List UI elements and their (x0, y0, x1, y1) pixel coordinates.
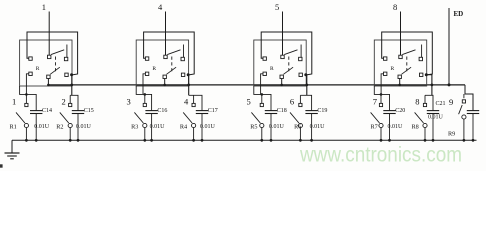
svg-text:2: 2 (62, 96, 66, 106)
wire hat over block S1 (27, 32, 78, 75)
svg-text:R7: R7 (371, 123, 378, 130)
net ED line (448, 8, 450, 85)
svg-text:1: 1 (42, 2, 46, 12)
terminal bottom-middle S4 (398, 75, 401, 78)
svg-text:R2: R2 (56, 123, 63, 130)
key switch 9 (462, 100, 465, 103)
svg-text:C18: C18 (277, 108, 287, 114)
svg-text:www.cntronics.com: www.cntronics.com (299, 144, 462, 167)
svg-text:C14: C14 (42, 108, 52, 114)
wire capacitor C17 to ground bus (201, 114, 203, 141)
junction dot bottom-right S3 (304, 73, 307, 76)
wire W3 drop block 2 (187, 75, 190, 96)
switch block S1 box (20, 40, 72, 86)
switch blade upper S1 (51, 50, 64, 55)
gang dashed link S1 (55, 57, 57, 72)
svg-text:7: 7 (373, 96, 377, 106)
wire W1 to unit 9 (465, 85, 473, 111)
terminal bottom-right S2 (181, 73, 184, 76)
switch blade lower S2 (167, 67, 177, 74)
terminal top-middle S1 (48, 55, 51, 58)
svg-text:6: 6 (290, 96, 294, 106)
junction dot bottom-right S2 (187, 73, 190, 76)
key switch 7 (379, 103, 382, 106)
capacitor C21 (427, 110, 439, 112)
wire switch 8 to ground bus (424, 128, 426, 141)
svg-text:5: 5 (275, 2, 279, 12)
switch blade upper S2 (167, 50, 180, 55)
key switch 5 (260, 103, 263, 106)
wire capacitor C15 to ground bus (77, 114, 79, 141)
terminal top-left S1 (29, 57, 32, 60)
terminal top-right S3 (299, 57, 302, 60)
terminal bottom-right S4 (420, 73, 423, 76)
wire bottom-left to unit (381, 74, 383, 95)
wire stub switch 1 (25, 94, 27, 103)
svg-text:R1: R1 (10, 123, 17, 130)
wire capacitor C18 to ground bus (270, 114, 272, 141)
key switch 8 (423, 103, 426, 106)
wire capacitor C19 to ground bus (311, 114, 313, 141)
terminal bottom-left S1 (29, 72, 32, 75)
svg-text:R9: R9 (448, 131, 455, 138)
node 4 input line (165, 12, 167, 56)
capacitor C22 unit 9 (467, 110, 479, 112)
wire stub top-right S4 (421, 45, 423, 58)
svg-text:C19: C19 (317, 108, 327, 114)
terminal top-middle S4 (399, 55, 402, 58)
switch blade upper S3 (284, 50, 297, 55)
switch block S2 box (136, 40, 188, 86)
wire stub top-right S3 (300, 45, 302, 58)
capacitor C18 (265, 110, 277, 112)
wire capacitor C21 to ground bus (432, 114, 434, 141)
wire capacitor C16 to ground bus (151, 114, 153, 141)
switch blade lower S4 (402, 67, 412, 74)
capacitor C14 (30, 110, 42, 112)
svg-text:8: 8 (415, 96, 419, 106)
svg-text:9: 9 (449, 97, 453, 107)
capacitor C15 (72, 110, 84, 112)
wire stub switch 8 (424, 95, 426, 103)
wire stub switch 5 (261, 94, 263, 103)
terminal bottom-middle S2 (163, 75, 166, 78)
svg-text:R3: R3 (131, 123, 138, 130)
gang dashed link S2 (171, 57, 173, 72)
key switch 6 (299, 103, 302, 106)
wire stub switch 2 (69, 95, 71, 103)
svg-text:0.01U: 0.01U (428, 115, 444, 121)
terminal bottom-left S2 (145, 72, 148, 75)
svg-text:5: 5 (247, 96, 251, 106)
terminal top-right S4 (419, 57, 422, 60)
terminal top-left S4 (384, 57, 387, 60)
wire right feed block 3 (300, 95, 311, 110)
wire stub top-right S2 (183, 45, 185, 58)
wire W3 drop block 4 (426, 75, 432, 96)
svg-text:1: 1 (12, 96, 16, 106)
key switch 1 (25, 103, 28, 106)
wire bottom-middle to net W1 (164, 79, 166, 85)
junction dot bottom-right S1 (70, 73, 73, 76)
wire right feed block 2 (189, 95, 202, 110)
terminal top-right S1 (64, 57, 67, 60)
wire left feed block 3 (254, 86, 271, 111)
svg-text:C17: C17 (208, 108, 218, 114)
wire switch 4 to ground bus (193, 128, 195, 141)
wire stub switch 3 (144, 94, 146, 103)
ground bus (12, 139, 477, 141)
svg-text:8: 8 (393, 2, 397, 12)
key switch 2 (69, 103, 72, 106)
wire switch 6 to ground bus (299, 128, 301, 141)
ground (11, 140, 13, 153)
gang dashed link S3 (288, 57, 290, 72)
svg-text:R4: R4 (180, 123, 187, 130)
capacitor C19 (305, 110, 317, 112)
wire stub switch 7 (380, 94, 382, 103)
terminal top-left S2 (145, 57, 148, 60)
svg-text:C15: C15 (84, 108, 94, 114)
wire switch 2 to ground bus (69, 128, 71, 141)
switch block S4 box (374, 40, 426, 86)
node 5 input line (282, 12, 284, 56)
wire stub switch 4 (193, 95, 195, 103)
svg-text:C21: C21 (436, 101, 446, 107)
terminal top-middle S2 (164, 55, 167, 58)
switch blade lower S1 (50, 67, 60, 74)
wire switch 3 to ground bus (144, 128, 146, 141)
key switch 3 (143, 103, 146, 106)
wire hat over block S3 (261, 32, 312, 75)
svg-text:R5: R5 (250, 123, 257, 130)
wire W3 drop block 3 (306, 75, 307, 96)
svg-text:ED: ED (454, 10, 464, 18)
wire left feed block 1 (20, 86, 37, 111)
terminal bottom-right S1 (65, 73, 68, 76)
capacitor C17 (196, 110, 208, 112)
wire net W1 horizontal bus y=84.7 (48, 84, 465, 86)
switch blade upper S4 (402, 50, 415, 55)
svg-text:C16: C16 (157, 108, 167, 114)
terminal bottom-middle S3 (280, 75, 283, 78)
svg-text:R: R (391, 66, 395, 72)
artifact mark bottom-left (0, 164, 3, 167)
wire bottom-left to unit (26, 74, 28, 95)
terminal bottom-right S3 (299, 73, 302, 76)
wire switch 9 to ground bus (463, 119, 465, 140)
wire capacitor C20 to ground bus (389, 114, 391, 141)
wire bottom-middle to net W1 (399, 79, 401, 85)
svg-text:R: R (270, 66, 274, 72)
wire switch 5 to ground bus (261, 128, 263, 141)
terminal top-middle S3 (281, 55, 284, 58)
switch block S3 box (254, 40, 306, 86)
terminal top-right S2 (181, 57, 184, 60)
wire hat over block S4 (382, 32, 433, 75)
wire bottom-middle to net W1 (47, 79, 49, 85)
terminal top-left S3 (263, 57, 266, 60)
wire switch 1 to ground bus (25, 128, 27, 141)
svg-text:R8: R8 (412, 123, 419, 130)
capacitor C20 (383, 110, 395, 112)
wire stub switch 6 (299, 95, 301, 103)
wire bottom-left to unit (261, 74, 263, 95)
gang dashed link S4 (406, 57, 408, 72)
wire W3 drop block 1 (71, 75, 73, 96)
wire switch 7 to ground bus (380, 128, 382, 141)
wire left feed block 2 (136, 86, 151, 111)
svg-text:3: 3 (127, 96, 131, 106)
wire right feed block 4 (425, 95, 433, 110)
key switch 4 (192, 103, 195, 106)
wire left feed block 4 (374, 86, 389, 111)
wire capacitor C14 to ground bus (35, 114, 37, 141)
svg-text:C20: C20 (395, 108, 405, 114)
wire right feed block 1 (70, 95, 78, 110)
wire bottom-middle to net W1 (281, 79, 283, 85)
wire bottom-left to unit (143, 74, 145, 95)
node 8 input line (400, 12, 402, 56)
junction dot bottom-right S4 (425, 73, 428, 76)
svg-text:R: R (152, 66, 156, 72)
svg-text:R: R (36, 66, 40, 72)
terminal bottom-left S4 (384, 72, 387, 75)
switch blade lower S3 (284, 67, 294, 74)
wire hat over block S2 (144, 32, 195, 75)
wire stub switch 9 (463, 94, 465, 98)
wire capacitor C22 to ground bus (472, 114, 474, 141)
wire stub top-right S1 (66, 45, 68, 58)
node 1 input line (48, 12, 50, 56)
capacitor C16 (145, 110, 157, 112)
terminal bottom-left S3 (263, 72, 266, 75)
terminal bottom-middle S1 (47, 75, 50, 78)
